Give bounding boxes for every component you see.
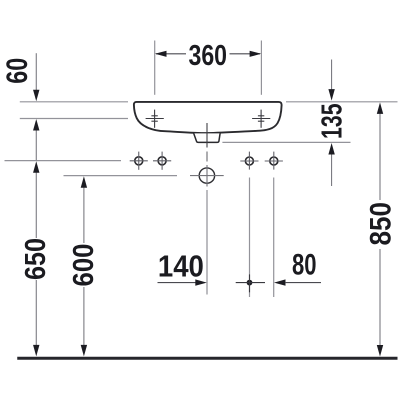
dimension 360 arrow left <box>155 51 167 57</box>
dimension 850 arrow up <box>377 102 383 114</box>
wall hole circle 4 <box>265 152 283 170</box>
svg-text:600: 600 <box>68 244 100 287</box>
dimension 135 arrow up <box>328 143 334 155</box>
wall hole circle 1 <box>130 152 148 170</box>
dimension 600 line upper <box>83 186 85 244</box>
dimension 360 extension line right <box>260 41 262 95</box>
dimension 80 leader line <box>285 282 321 284</box>
reference line basin top left <box>20 101 128 103</box>
svg-text:850: 850 <box>365 202 398 246</box>
siphon circle <box>190 168 224 183</box>
center line vertical dash-dot <box>206 123 208 148</box>
svg-text:135: 135 <box>317 103 349 139</box>
dimension 135 arrow down <box>328 89 334 101</box>
dimension 80 arrow left <box>274 279 286 285</box>
dimension 600 arrow down <box>81 345 87 357</box>
drain trapezoid <box>194 133 220 142</box>
dimension 360 arrow right <box>250 51 262 57</box>
svg-text:60: 60 <box>1 58 34 84</box>
dimension 850 line lower <box>379 249 381 347</box>
svg-text:80: 80 <box>292 249 317 282</box>
reference line siphon level <box>64 175 178 177</box>
wall hole circle 3 <box>240 152 258 170</box>
dimension 600 line lower <box>83 287 85 347</box>
dimension 60 lower line <box>35 128 37 160</box>
chain dot cross horizontal <box>236 282 265 284</box>
reference line drain bottom <box>222 141 350 143</box>
dimension 140 leader line <box>158 282 197 284</box>
fixation cross left <box>146 110 164 128</box>
dimension 360 line right tail <box>230 53 261 55</box>
dimension 850 arrow down <box>377 345 383 357</box>
svg-text:650: 650 <box>20 238 52 280</box>
dimension 650 line upper <box>35 171 37 239</box>
svg-text:360: 360 <box>189 40 228 72</box>
dimension 60 arrow up <box>33 119 39 131</box>
dimension 140 arrow right <box>195 279 207 285</box>
dimension 60 upper line <box>35 53 37 92</box>
reference line wall holes level <box>5 160 122 162</box>
dimension 650 arrow up <box>33 161 39 173</box>
dimension 600 arrow up <box>81 176 87 188</box>
extension line hole x249 <box>249 178 251 298</box>
svg-text:140: 140 <box>158 249 204 284</box>
extension line hole x273 <box>273 178 275 298</box>
dimension 360 line left tail <box>156 53 186 55</box>
chain dot cross vertical <box>249 274 251 292</box>
wall hole circle 2 <box>153 152 171 170</box>
chain dimension dot <box>247 280 253 286</box>
basin outline <box>134 102 282 133</box>
dimension 850 line upper <box>379 111 381 200</box>
dimension 360 extension line left <box>154 41 156 95</box>
dimension 650 arrow down <box>33 345 39 357</box>
fixation cross right <box>252 110 270 128</box>
floor line <box>17 357 397 360</box>
dimension 135 upper line <box>331 60 333 92</box>
reference line inner holes left <box>20 118 128 120</box>
dimension 60 arrow down <box>33 90 39 102</box>
dimension 650 line lower <box>35 280 37 347</box>
reference line basin top right <box>286 101 398 103</box>
dimension 135 lower line <box>331 152 333 186</box>
